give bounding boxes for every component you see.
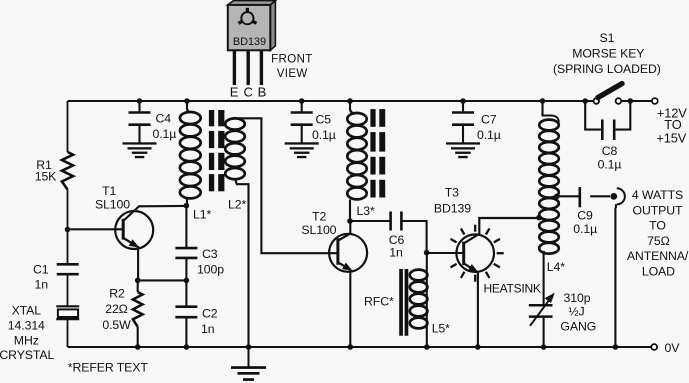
label L5 bbox=[432, 322, 450, 336]
svg-text:1n: 1n bbox=[201, 322, 215, 336]
capacitor C6 bbox=[391, 212, 402, 231]
capacitor C5 bbox=[291, 113, 313, 125]
ground C7 bbox=[446, 142, 480, 158]
svg-text:MORSE KEY: MORSE KEY bbox=[572, 47, 644, 61]
svg-text:S1: S1 bbox=[599, 31, 614, 45]
label S1 bbox=[553, 31, 661, 76]
svg-text:100p: 100p bbox=[197, 263, 224, 277]
svg-text:ANTENNA/: ANTENNA/ bbox=[627, 249, 689, 263]
capacitor C4 bbox=[129, 113, 151, 125]
svg-text:+15V: +15V bbox=[656, 131, 686, 146]
wire T3 emitter down bbox=[477, 272, 479, 348]
svg-text:OUTPUT: OUTPUT bbox=[633, 203, 684, 217]
resistor R1 bbox=[62, 152, 73, 190]
svg-text:C3: C3 bbox=[202, 247, 218, 261]
terminal 0V bbox=[651, 344, 657, 350]
label refer-text note bbox=[68, 360, 149, 374]
label C5 value bbox=[312, 113, 336, 142]
label R1 value bbox=[35, 158, 57, 184]
label BD139 package bbox=[233, 36, 266, 48]
label crystal value bbox=[0, 304, 54, 363]
svg-text:SL100: SL100 bbox=[301, 223, 336, 237]
capacitor C2 bbox=[175, 307, 197, 318]
node T1 emitter / R2 bbox=[135, 278, 141, 284]
svg-text:C8: C8 bbox=[602, 144, 618, 158]
wire L3 top lead bbox=[349, 101, 351, 110]
label +12V bbox=[656, 105, 687, 145]
variable capacitor gang bbox=[529, 293, 555, 326]
wire T2 collector bbox=[338, 221, 350, 241]
svg-text:R2: R2 bbox=[109, 287, 125, 301]
label T2 bbox=[301, 210, 336, 237]
wire C6 node to T3 base bbox=[427, 252, 464, 254]
label C7 value bbox=[477, 113, 501, 142]
label RFC bbox=[364, 295, 394, 309]
svg-text:1n: 1n bbox=[389, 246, 403, 260]
wire emitter node to C3/C2 node bbox=[138, 279, 187, 281]
wire L4 tap to C9 bbox=[557, 195, 580, 197]
label HEATSINK bbox=[484, 281, 541, 295]
heatsink rays T3 bbox=[451, 225, 504, 282]
svg-text:4 WATTS: 4 WATTS bbox=[632, 188, 683, 202]
wire +V top rail bbox=[68, 100, 652, 102]
capacitor C1 bbox=[57, 264, 79, 274]
node C2 / 0V rail bbox=[184, 344, 190, 350]
wire L3 node to C6 bbox=[350, 220, 390, 222]
capacitor C7 bbox=[452, 113, 474, 125]
node R2 / 0V rail bbox=[135, 344, 141, 350]
ground C4 bbox=[123, 142, 157, 158]
node L1 top / +V rail bbox=[184, 98, 190, 104]
wire C5 lead bbox=[301, 101, 303, 112]
svg-text:GANG: GANG bbox=[560, 319, 596, 333]
svg-text:T2: T2 bbox=[312, 210, 326, 224]
svg-text:C9: C9 bbox=[577, 208, 593, 222]
label C9 value bbox=[573, 208, 597, 236]
node T3 emitter / 0V rail bbox=[475, 344, 481, 350]
wire C3 top lead bbox=[185, 206, 187, 248]
inductor L1 bbox=[180, 109, 201, 199]
ground bottom rail bbox=[231, 347, 266, 381]
inductor L5 bbox=[410, 270, 428, 329]
wire T2 emitter down bbox=[349, 271, 351, 348]
wire C8 left leg bbox=[585, 101, 601, 130]
svg-text:B: B bbox=[258, 85, 267, 100]
svg-text:0V: 0V bbox=[665, 341, 681, 355]
svg-text:0.1µ: 0.1µ bbox=[153, 127, 177, 141]
wire C4 lead bbox=[138, 101, 140, 112]
svg-text:22Ω: 22Ω bbox=[105, 302, 128, 316]
node C6 / T3 base / L5 bbox=[424, 250, 430, 256]
label L2 bbox=[228, 198, 246, 212]
wire output down to rail bbox=[614, 204, 617, 347]
inductor L4 bbox=[539, 120, 559, 254]
wire L3 bottom lead bbox=[349, 200, 351, 222]
wire C9 to output node bbox=[590, 195, 610, 197]
node output line / 0V rail bbox=[613, 344, 619, 350]
svg-text:14.314: 14.314 bbox=[8, 318, 45, 332]
svg-text:0.1µ: 0.1µ bbox=[598, 158, 622, 172]
transistor T2 bbox=[329, 234, 367, 272]
svg-text:0.1µ: 0.1µ bbox=[312, 128, 336, 142]
svg-text:*REFER TEXT: *REFER TEXT bbox=[68, 360, 149, 374]
svg-text:CRYSTAL: CRYSTAL bbox=[0, 348, 54, 362]
wire T1 collector to L1 bbox=[123, 206, 186, 221]
svg-text:VIEW: VIEW bbox=[277, 68, 308, 80]
label C3 value bbox=[197, 247, 224, 277]
node L3 bottom / T2 collector / C6 bbox=[347, 218, 353, 224]
core L3 (dashed) bbox=[370, 109, 385, 197]
wire T1 base bbox=[68, 228, 124, 230]
svg-text:C2: C2 bbox=[202, 307, 218, 321]
node L4 top / +V rail bbox=[540, 98, 546, 104]
wire L2 bottom to ground rail bbox=[235, 179, 249, 347]
svg-text:L3*: L3* bbox=[357, 204, 375, 218]
node L1 bottom / T1 collector / C3 bbox=[184, 203, 190, 209]
svg-text:0.1µ: 0.1µ bbox=[477, 128, 501, 142]
svg-text:T1: T1 bbox=[102, 184, 116, 198]
label T1 bbox=[95, 184, 130, 212]
node gang / 0V rail bbox=[541, 344, 547, 350]
svg-text:LOAD: LOAD bbox=[642, 265, 675, 279]
svg-text:TO: TO bbox=[649, 219, 666, 233]
wire L5 right side bbox=[426, 253, 428, 347]
svg-text:SL100: SL100 bbox=[95, 198, 130, 212]
svg-text:C: C bbox=[243, 85, 252, 100]
wire left rail R1 branch bbox=[67, 101, 69, 347]
svg-text:RFC*: RFC* bbox=[364, 295, 394, 309]
svg-text:FRONT: FRONT bbox=[271, 53, 313, 65]
wire C8 right leg bbox=[616, 101, 631, 130]
svg-text:C5: C5 bbox=[316, 113, 332, 127]
wire C3 to C2 bbox=[185, 258, 187, 307]
svg-text:½J: ½J bbox=[568, 305, 584, 319]
BD139 package front view bbox=[228, 1, 276, 51]
svg-text:C7: C7 bbox=[481, 113, 497, 127]
svg-text:0.1µ: 0.1µ bbox=[573, 222, 597, 236]
terminal +12V bbox=[652, 98, 658, 104]
wire C5 to ground bbox=[301, 125, 303, 144]
transistor T1 bbox=[115, 211, 153, 249]
node C5 / +V rail bbox=[299, 98, 305, 104]
node T2 emitter / 0V rail bbox=[348, 344, 354, 350]
inductor L3 bbox=[347, 109, 366, 200]
wire L1 bottom lead bbox=[186, 198, 188, 206]
label L1 bbox=[193, 208, 211, 222]
label L4 bbox=[547, 260, 565, 274]
wire C2 bottom lead bbox=[185, 317, 187, 347]
svg-text:HEATSINK: HEATSINK bbox=[484, 281, 541, 295]
label gang value bbox=[560, 291, 596, 334]
wire S1 to +12V terminal bbox=[630, 100, 651, 102]
svg-text:0.5W: 0.5W bbox=[102, 318, 131, 332]
wire L4 top lead bbox=[543, 101, 559, 123]
node C4 / +V rail bbox=[137, 98, 143, 104]
label output bbox=[627, 188, 689, 279]
node L4 tap C9 bbox=[554, 194, 560, 200]
crystal X1 bbox=[56, 306, 79, 319]
svg-text:1n: 1n bbox=[35, 278, 49, 292]
label C8 value bbox=[598, 144, 622, 172]
wire 0V rail to terminal bbox=[615, 346, 650, 348]
capacitor C3 bbox=[175, 248, 197, 258]
capacitor C8 bbox=[602, 120, 614, 141]
svg-text:L5*: L5* bbox=[432, 322, 450, 336]
svg-text:(SPRING LOADED): (SPRING LOADED) bbox=[553, 62, 661, 76]
label pins E C B bbox=[230, 85, 266, 100]
svg-text:L2*: L2* bbox=[228, 198, 246, 212]
svg-text:L1*: L1* bbox=[193, 208, 211, 222]
wire L2 top to T2 base bbox=[239, 118, 338, 253]
svg-text:C1: C1 bbox=[33, 263, 49, 277]
pin leads E C B bbox=[234, 50, 261, 85]
capacitor C9 bbox=[578, 187, 581, 207]
svg-text:E: E bbox=[230, 85, 239, 100]
node S1 left / +V rail bbox=[582, 98, 588, 104]
node T1 base / R1 bbox=[65, 227, 71, 233]
wire C6 to T3 base corner bbox=[402, 221, 427, 253]
label L3 bbox=[357, 204, 375, 218]
transistor T3 bbox=[456, 234, 494, 272]
svg-text:T3: T3 bbox=[445, 186, 459, 200]
wire R2 leads bbox=[137, 280, 139, 347]
svg-text:BD139: BD139 bbox=[434, 201, 471, 215]
label front view bbox=[271, 53, 313, 80]
label T3 bbox=[434, 186, 471, 216]
wire L1 top lead bbox=[186, 101, 188, 110]
label 0V bbox=[665, 341, 681, 355]
wire C7 lead bbox=[462, 101, 464, 112]
wire C7 to ground bbox=[462, 125, 464, 144]
node L3 top / +V rail bbox=[347, 98, 353, 104]
transformer core L1/L2 bbox=[209, 110, 225, 191]
wire gang capacitor to rail bbox=[543, 318, 545, 347]
wire L4 bottom to gang capacitor bbox=[543, 251, 545, 305]
wire 0V bottom rail bbox=[68, 346, 651, 348]
node L5 / 0V rail bbox=[424, 344, 430, 350]
node C3 / C2 junction bbox=[184, 278, 190, 284]
label C4 value bbox=[153, 112, 177, 141]
output terminal bbox=[610, 188, 624, 204]
svg-text:L4*: L4* bbox=[547, 260, 565, 274]
svg-text:75Ω: 75Ω bbox=[647, 234, 670, 248]
ground C5 bbox=[285, 142, 319, 158]
node L4 tap T3 collector bbox=[536, 215, 542, 221]
node C7 / +V rail bbox=[460, 98, 466, 104]
resistor R2 bbox=[133, 292, 143, 327]
RFC core bbox=[399, 269, 408, 336]
wire C4 to ground bbox=[138, 125, 140, 144]
svg-text:XTAL: XTAL bbox=[12, 304, 42, 318]
svg-text:TO: TO bbox=[664, 117, 681, 132]
svg-text:310p: 310p bbox=[564, 291, 591, 305]
node S1 right / +V rail bbox=[628, 98, 634, 104]
svg-text:15K: 15K bbox=[35, 170, 57, 184]
switch S1 morse key bbox=[594, 84, 623, 104]
wire T1 emitter down bbox=[137, 246, 139, 280]
svg-text:BD139: BD139 bbox=[233, 36, 266, 48]
svg-text:C4: C4 bbox=[156, 112, 172, 126]
node ground / 0V rail bbox=[246, 344, 252, 350]
inductor L2 bbox=[225, 118, 245, 179]
label C1 value bbox=[33, 263, 49, 292]
wire T3 collector to L4 tap bbox=[464, 218, 539, 243]
label R2 value bbox=[102, 287, 131, 333]
label C6 value bbox=[389, 233, 405, 260]
label C2 value bbox=[201, 307, 218, 337]
svg-text:MHz: MHz bbox=[14, 333, 39, 347]
